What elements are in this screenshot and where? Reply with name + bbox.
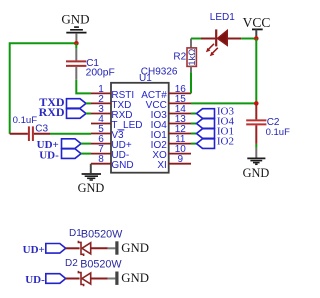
capacitor C2 [246, 103, 290, 143]
power GND bar (D2) [115, 271, 149, 285]
node junction VCC/LED [254, 36, 259, 41]
svg-text:UD-: UD- [25, 274, 45, 286]
pin 11 [169, 143, 191, 145]
pin 13 [169, 123, 191, 125]
svg-text:0.1uF: 0.1uF [266, 127, 290, 138]
pin 9 [169, 163, 191, 165]
wire UD- to pin 7 [81, 153, 91, 155]
ground GND top [61, 12, 89, 44]
capacitor C1 [66, 49, 115, 80]
pin 2 [91, 102, 111, 104]
svg-text:1kΩ: 1kΩ [187, 49, 198, 66]
svg-text:UD+: UD+ [23, 244, 45, 256]
pin 10 [169, 153, 191, 155]
LED LED1 [206, 12, 235, 56]
wire pin 8 to ground [90, 164, 92, 174]
wire UD- to D2 [66, 278, 80, 280]
port UD+ bottom [23, 244, 66, 256]
pin 1 [91, 92, 111, 94]
wire C1 to pin 1 [76, 80, 91, 94]
svg-text:D2: D2 [65, 258, 78, 269]
diode D2 [78, 271, 90, 286]
wire UD+ to pin 6 [81, 143, 91, 145]
svg-text:8: 8 [98, 154, 104, 165]
svg-text:GND: GND [121, 271, 149, 285]
svg-text:R2: R2 [173, 52, 186, 63]
port IO1 [197, 126, 235, 139]
pin 16 [169, 92, 191, 94]
pin 15 [169, 102, 191, 104]
svg-text:9: 9 [178, 154, 184, 165]
wire pin 12 to IO1 port [191, 133, 197, 135]
svg-text:GND: GND [111, 160, 133, 171]
wire pin 11 to IO2 port [191, 143, 197, 145]
power GND bar (D1) [115, 241, 149, 255]
pin 8 [91, 163, 111, 165]
node junction at GND/C1 [74, 41, 79, 46]
wire D2 to GND [91, 278, 108, 280]
svg-text:IO2: IO2 [217, 136, 234, 148]
wire pin 13 to IO4 port [191, 123, 197, 125]
ground GND bottom right [243, 148, 270, 180]
capacitor C3 [10, 115, 50, 141]
wire C3 to pin 5 [50, 133, 91, 135]
svg-text:UD-: UD- [39, 150, 59, 162]
port IO4 [197, 116, 235, 129]
port UD+ left [37, 139, 81, 151]
svg-text:VCC: VCC [243, 15, 271, 30]
svg-text:C3: C3 [35, 124, 48, 135]
pin 6 [91, 143, 111, 145]
diode D1 [78, 241, 90, 256]
port TXD [39, 95, 86, 109]
port IO3 [197, 106, 235, 119]
resistor R2 [173, 39, 198, 73]
wire D1 to GND [91, 247, 108, 249]
wire R2 top to LED [191, 38, 201, 40]
node junction VCC/C2 [254, 101, 259, 106]
svg-text:RXD: RXD [39, 105, 65, 119]
svg-text:LED1: LED1 [210, 12, 235, 23]
svg-text:B0520W: B0520W [80, 259, 122, 271]
port UD- bottom [25, 274, 65, 286]
svg-text:GND: GND [121, 241, 149, 255]
wire UD+ to D1 [66, 247, 80, 249]
ground GND below pin 8 [78, 174, 105, 195]
svg-text:GND: GND [243, 166, 270, 180]
power VCC [243, 15, 271, 39]
pin 3 [91, 113, 111, 115]
port IO2 [197, 136, 235, 149]
svg-text:XI: XI [157, 160, 166, 171]
pin 4 [91, 123, 111, 125]
svg-text:B0520W: B0520W [81, 229, 123, 241]
wire pin 15 to VCC rail [191, 102, 256, 104]
chip U1 CH9326 [111, 67, 178, 173]
pin 14 [169, 113, 191, 115]
wire VCC rail down [255, 39, 257, 104]
wire junction to C1 [75, 43, 77, 49]
svg-text:GND: GND [78, 181, 105, 195]
wire C2 to ground [255, 144, 257, 148]
svg-text:GND: GND [61, 12, 89, 27]
wire TXD to pin 2 [86, 102, 91, 104]
pin 7 [91, 153, 111, 155]
svg-text:0.1uF: 0.1uF [13, 115, 38, 126]
svg-text:200pF: 200pF [86, 68, 115, 79]
wire LED to VCC [227, 38, 241, 40]
port RXD [39, 105, 86, 119]
port UD- left [39, 149, 81, 162]
pin 12 [169, 133, 191, 135]
wire R2 to pin 16 [190, 72, 192, 93]
wire RXD to pin 3 [86, 113, 91, 115]
wire GND top to C3 (left run) [10, 43, 77, 133]
pin 5 [91, 133, 111, 135]
wire pin 14 to IO3 port [191, 113, 197, 115]
